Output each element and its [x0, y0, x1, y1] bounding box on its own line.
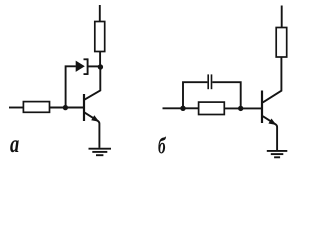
transistor base bar (circuit a): [83, 94, 85, 121]
wire diode cathode to collector node (circuit a): [88, 65, 99, 67]
wire node to base resistor (circuit b): [185, 107, 199, 109]
wire base resistor to transistor base (circuit a): [50, 107, 84, 109]
wire collector node down to transistor collector (circuit a): [84, 67, 100, 100]
wire top supply stub (circuit a): [99, 5, 101, 22]
diode tunnel diode (circuit a): [76, 58, 88, 75]
wire input stub (circuit a): [9, 107, 23, 109]
wire capacitor branch left riser (circuit b): [183, 82, 207, 108]
label b (circuit b): [158, 134, 166, 161]
wire resistor down to transistor collector (circuit b): [263, 57, 282, 102]
node collector junction dot (circuit a): [98, 64, 103, 69]
node left junction dot (circuit b): [180, 106, 185, 111]
wire input stub (circuit b): [163, 107, 182, 109]
ground (circuit a): [89, 149, 112, 156]
resistor collector (circuit a): [95, 22, 105, 52]
wire base resistor to transistor base (circuit b): [224, 107, 261, 109]
wire top supply stub (circuit b): [281, 6, 283, 28]
wire resistor to collector node (circuit a): [99, 52, 101, 68]
transistor emitter with arrow (circuit a): [84, 112, 99, 147]
capacitor (circuit b): [208, 74, 211, 89]
resistor base (circuit b): [199, 102, 225, 114]
label a (circuit a): [10, 130, 19, 160]
node right junction dot (circuit b): [238, 106, 243, 111]
transistor emitter with arrow (circuit b): [263, 116, 277, 150]
wire capacitor branch right riser (circuit b): [212, 82, 240, 108]
resistor base input (circuit a): [23, 102, 49, 113]
ground (circuit b): [267, 151, 288, 157]
node base junction dot (circuit a): [63, 105, 68, 110]
wire feedback branch riser (circuit a): [66, 66, 76, 107]
transistor base bar (circuit b): [261, 91, 263, 124]
resistor collector (circuit b): [276, 28, 287, 58]
